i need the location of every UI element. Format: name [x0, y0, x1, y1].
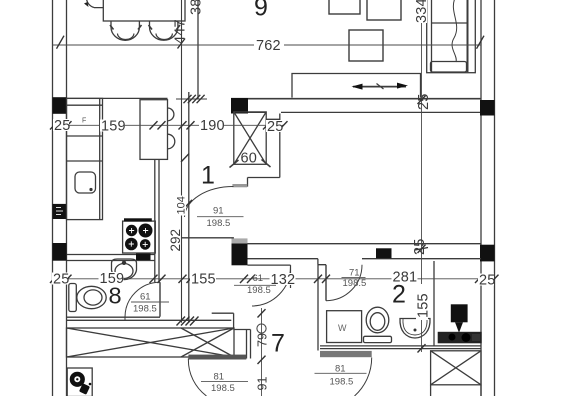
- room2 sink bowl: [400, 319, 430, 339]
- svg-text:F: F: [82, 118, 86, 125]
- dining chair south 1: [110, 21, 142, 40]
- dim text 159 corridor: [99, 271, 125, 287]
- coffee table square 3: [349, 30, 383, 61]
- svg-text:281: 281: [393, 270, 418, 286]
- wall: room2 top band: [248, 244, 482, 265]
- svg-text:25: 25: [479, 273, 496, 289]
- TV arrow symbol: [352, 83, 409, 90]
- room2 water heater: [451, 304, 468, 332]
- svg-text:198.5: 198.5: [211, 383, 235, 394]
- black block under stove: [136, 253, 151, 260]
- coffee table square 2: [367, 0, 401, 20]
- stove: [123, 218, 156, 253]
- door leaf: room2 bottom door (closed band): [320, 351, 372, 357]
- svg-text:25: 25: [54, 118, 71, 134]
- column: left wall mid (patterned pier): [53, 204, 67, 219]
- dim line corridor horizontal: [53, 278, 496, 280]
- rotated dim 104: [175, 196, 187, 216]
- svg-text:81: 81: [214, 372, 225, 383]
- svg-text:25: 25: [416, 93, 432, 110]
- svg-text:198.5: 198.5: [207, 218, 231, 229]
- wall: hall bottom horizontal to column: [181, 237, 234, 239]
- door: bath8 door 61 leaf and arc: [125, 282, 160, 320]
- column: center mid (grey cap): [232, 238, 248, 265]
- svg-text:25: 25: [53, 272, 70, 288]
- dim text 762: [254, 37, 284, 54]
- living room sofa: [427, 0, 476, 73]
- washing machine bottom-left: [67, 368, 92, 396]
- door arc: room2 bottom door 81: [355, 358, 372, 396]
- wall: bath8 bottom / corridor top lines: [67, 313, 251, 358]
- shaft: long duct band below bath8 with double X: [67, 328, 235, 357]
- column: right wall top: [480, 100, 495, 116]
- svg-text:25: 25: [267, 119, 284, 135]
- dining chair south 2: [149, 21, 181, 40]
- tick marks: [50, 36, 499, 364]
- wall: room2 bottom band: [320, 346, 481, 349]
- dim line kitchen horizontal: [53, 124, 285, 126]
- door: corridor door 61/132 arc: [252, 265, 291, 306]
- wall: bath8 top band: [67, 255, 155, 261]
- wall: below bottom-right shaft verticals: [431, 385, 481, 396]
- dining chair west (partial): [84, 0, 103, 8]
- dim extension line V2 top: [197, 0, 199, 99]
- TV shelf: [292, 74, 421, 98]
- bath8 sink basin: [112, 259, 137, 280]
- left exterior wall: [53, 0, 67, 396]
- svg-text:159: 159: [101, 119, 126, 135]
- svg-text:104: 104: [175, 196, 187, 214]
- svg-text:7: 7: [271, 330, 285, 358]
- room2 vanity dark counter: [438, 332, 482, 344]
- svg-text:155: 155: [191, 272, 216, 288]
- svg-text:W: W: [338, 323, 347, 333]
- svg-text:79: 79: [255, 333, 269, 347]
- svg-text:60: 60: [241, 151, 258, 167]
- svg-text:91: 91: [255, 377, 269, 391]
- svg-text:1: 1: [201, 162, 215, 190]
- room2 toilet: [364, 307, 392, 342]
- wall: hallway top band lower face: [248, 112, 481, 119]
- dim text 281: [392, 270, 418, 286]
- kitchen counter left run: [67, 98, 103, 219]
- wall: kitchen/hall partition vertical pair: [182, 0, 189, 323]
- bath8 toilet: [69, 284, 106, 312]
- column: center top: [231, 98, 248, 114]
- svg-text:25: 25: [412, 238, 428, 255]
- svg-text:198.5: 198.5: [133, 304, 157, 315]
- wall: room2 right partial: [433, 261, 435, 346]
- door label 81/198.5 room2 bottom: [315, 364, 367, 388]
- wall: room2 left: [317, 265, 319, 351]
- rotated dim 155 room2: [416, 284, 432, 320]
- dim vline right x421: [421, 0, 423, 352]
- shaft: kitchen duct with X: [230, 112, 271, 168]
- wall: right of kitchen shaft, hallway right side: [248, 114, 280, 187]
- dim text 25 shaft: [266, 119, 284, 135]
- wall: room7 entry thick band: [188, 355, 246, 360]
- svg-text:155: 155: [416, 293, 432, 318]
- threshold: hall door right jamb grey: [232, 184, 247, 187]
- island stool 1: [168, 108, 174, 121]
- door label 81/198.5 room7: [201, 372, 248, 395]
- svg-text:91: 91: [213, 206, 224, 217]
- dim vline room7: [261, 308, 263, 396]
- room2 washing machine W: [327, 311, 362, 343]
- dining table: [103, 0, 185, 21]
- wall: room9 lower boundary line: [53, 97, 482, 100]
- svg-text:380: 380: [189, 0, 205, 15]
- coffee table square 1: [329, 0, 360, 14]
- door: room2 door 71 leaf and arc: [326, 265, 362, 301]
- wall: bath8/kitchen partition vertical pair: [155, 159, 159, 282]
- kitchen island: [140, 100, 168, 160]
- door arc: hall1 bottom door 91: [185, 187, 234, 218]
- svg-text:447: 447: [173, 19, 189, 44]
- door label 61/198.5 bath8: [131, 292, 169, 315]
- shaft: bottom-right duct with X: [431, 351, 481, 385]
- dim text 132: [270, 272, 296, 288]
- dim text 25 left kitchen: [53, 118, 71, 134]
- column: left wall at bath top: [53, 243, 67, 261]
- column: left wall top: [53, 97, 67, 114]
- svg-text:762: 762: [256, 38, 281, 54]
- svg-text:9: 9: [254, 0, 268, 22]
- dim text 25 right corridor: [478, 273, 496, 289]
- door label 61 corridor small: [234, 273, 276, 296]
- rotated dim 334: [414, 0, 430, 23]
- dim line 762 horizontal: [53, 44, 482, 46]
- door label 71/198.5 room2: [342, 268, 367, 290]
- right exterior wall: [481, 0, 495, 396]
- svg-text:292: 292: [168, 229, 183, 252]
- column: right wall at room2 top: [480, 245, 495, 262]
- door label 91/198.5 hall: [197, 206, 244, 230]
- dim circle on room7 vline: [257, 324, 266, 333]
- dim text 159 kitchen: [100, 119, 126, 135]
- svg-text:71: 71: [349, 268, 360, 279]
- dim text 155 corridor: [190, 272, 216, 288]
- svg-text:198.5: 198.5: [330, 377, 354, 388]
- svg-text:334: 334: [414, 0, 430, 23]
- rotated dim 292: [168, 227, 183, 252]
- svg-text:190: 190: [200, 118, 225, 134]
- dim text 190: [199, 118, 225, 134]
- svg-text:198.5: 198.5: [247, 285, 271, 296]
- door arc: room7 left door 81: [188, 359, 206, 396]
- dim text 25 left corridor: [52, 272, 70, 288]
- svg-text:198.5: 198.5: [343, 278, 367, 289]
- kitchen sink: [75, 172, 96, 193]
- island stool 2: [168, 134, 175, 149]
- svg-text:61: 61: [253, 273, 264, 284]
- svg-text:159: 159: [100, 271, 125, 287]
- vent: black box in room2 top wall: [376, 248, 392, 258]
- dimension graphics: [53, 0, 496, 396]
- svg-text:61: 61: [140, 292, 151, 303]
